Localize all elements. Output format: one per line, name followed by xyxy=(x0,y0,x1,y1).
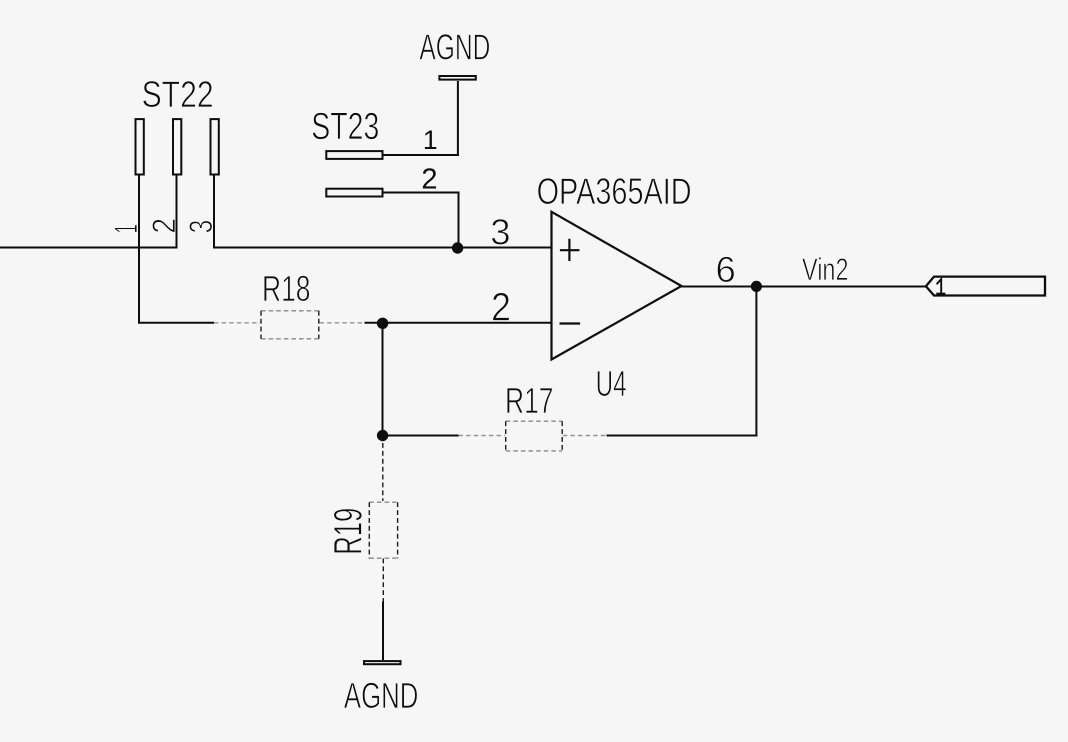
svg-text:U4: U4 xyxy=(596,363,627,404)
svg-text:3: 3 xyxy=(183,220,219,234)
svg-text:1: 1 xyxy=(423,125,438,155)
svg-text:2: 2 xyxy=(146,218,182,234)
svg-text:2: 2 xyxy=(421,164,437,196)
svg-text:ST23: ST23 xyxy=(311,106,379,148)
svg-text:OPA365AID: OPA365AID xyxy=(537,171,692,212)
svg-text:R18: R18 xyxy=(262,268,311,309)
svg-text:Vin2: Vin2 xyxy=(802,252,849,287)
svg-text:AGND: AGND xyxy=(344,675,419,716)
svg-text:1: 1 xyxy=(108,224,144,233)
svg-text:AGND: AGND xyxy=(419,26,490,67)
svg-text:R17: R17 xyxy=(505,380,554,421)
svg-text:ST22: ST22 xyxy=(142,74,214,115)
svg-text:R19: R19 xyxy=(327,508,371,555)
svg-text:2: 2 xyxy=(491,286,511,330)
svg-text:6: 6 xyxy=(716,249,736,290)
svg-text:3: 3 xyxy=(490,212,510,253)
